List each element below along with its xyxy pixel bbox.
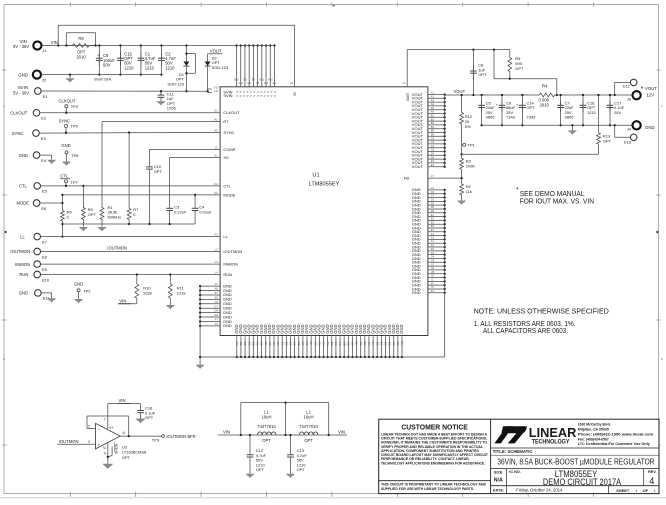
svg-text:4: 4 xyxy=(649,476,654,486)
svg-text:H7: H7 xyxy=(431,274,435,278)
svg-text:E3: E3 xyxy=(431,159,435,163)
svg-text:OF: OF xyxy=(643,488,649,493)
capacitor C3 0.22uF on SS xyxy=(170,156,221,158)
svg-text:OPT: OPT xyxy=(526,105,535,110)
svg-text:GND: GND xyxy=(399,324,404,333)
svg-text:1630 McCarthy Blvd.: 1630 McCarthy Blvd. xyxy=(578,423,611,427)
svg-text:B1: B1 xyxy=(431,114,435,118)
svg-text:0.22uF: 0.22uF xyxy=(174,210,187,215)
svg-text:a: a xyxy=(3,357,5,361)
wire IINMON line xyxy=(40,263,220,265)
svg-text:H2: H2 xyxy=(214,129,218,133)
svg-text:RUN: RUN xyxy=(19,272,28,277)
svg-text:2010: 2010 xyxy=(540,103,550,108)
svg-text:B10: B10 xyxy=(234,79,239,82)
svg-text:H8: H8 xyxy=(400,341,404,345)
capacitor C8 1uF OPT xyxy=(472,50,474,95)
svg-text:E6: E6 xyxy=(41,206,47,211)
svg-text:CLKOUT: CLKOUT xyxy=(223,110,240,115)
svg-text:8mm DIA.: 8mm DIA. xyxy=(94,77,112,82)
U1 right VOUT pins group xyxy=(428,94,445,96)
testpoint TP3 and IOUTMON BFR xyxy=(162,435,165,438)
svg-text:Phone: (408)432-1900 www.li: Phone: (408)432-1900 www.linear.com xyxy=(578,432,654,436)
ground symbol at E11 xyxy=(41,292,52,294)
svg-text:H5: H5 xyxy=(431,270,435,274)
svg-text:L2: L2 xyxy=(215,248,219,252)
svg-text:332k: 332k xyxy=(143,290,152,295)
svg-text:C1: C1 xyxy=(431,186,435,190)
svg-text:1: 1 xyxy=(654,488,656,493)
svg-text:LL: LL xyxy=(223,234,228,239)
svg-text:74477010: 74477010 xyxy=(299,424,318,429)
svg-text:VIN: VIN xyxy=(119,398,126,403)
wire VOUT rail xyxy=(445,94,537,96)
svg-text:F10: F10 xyxy=(214,85,219,89)
capacitor C10 OPT COMP xyxy=(150,148,221,150)
svg-text:L4: L4 xyxy=(215,271,219,275)
capacitor C18 0.1uF OPT xyxy=(140,404,142,409)
svg-text:6: 6 xyxy=(123,431,125,435)
svg-text:ALL CAPACITORS ARE 0603.: ALL CAPACITORS ARE 0603. xyxy=(483,328,568,335)
svg-text:5V - 36V: 5V - 36V xyxy=(13,44,29,49)
svg-text:E3: E3 xyxy=(41,136,47,141)
svg-text:OPT: OPT xyxy=(256,467,265,472)
svg-text:E5: E5 xyxy=(42,189,48,194)
svg-text:J2: J2 xyxy=(215,145,218,149)
resistor R1 36.5k to RT xyxy=(102,121,220,123)
svg-text:12V: 12V xyxy=(647,93,655,98)
svg-text:D7: D7 xyxy=(214,304,218,308)
svg-text:B9: B9 xyxy=(215,295,219,299)
svg-text:LL: LL xyxy=(20,234,25,239)
connector E6 MODE xyxy=(33,200,40,207)
wire right GND bus vertical xyxy=(444,190,446,357)
connector E13 xyxy=(614,125,616,137)
capacitor C6 68uF xyxy=(501,95,503,125)
svg-text:VOUT: VOUT xyxy=(645,86,657,91)
ground symbol U2 xyxy=(102,464,113,470)
svg-text:1206: 1206 xyxy=(167,106,177,111)
connector E12 xyxy=(614,82,616,95)
svg-text:VIN: VIN xyxy=(51,40,58,45)
connector E10 RUN xyxy=(34,271,41,278)
svg-text:FOR IOUT MAX. VS. VIN: FOR IOUT MAX. VS. VIN xyxy=(520,196,594,205)
svg-text:10uH: 10uH xyxy=(303,414,313,419)
svg-text:2: 2 xyxy=(88,424,90,428)
svg-text:GND: GND xyxy=(223,323,232,328)
svg-text:50V: 50V xyxy=(103,63,111,68)
U1 pin IN at top xyxy=(294,25,296,87)
svg-text:E7: E7 xyxy=(431,228,435,232)
svg-text:C8: C8 xyxy=(214,300,218,304)
connector J3 VOUT xyxy=(633,91,641,99)
svg-text:CTL: CTL xyxy=(19,184,28,189)
ground symbol output xyxy=(571,125,573,130)
svg-text:MODE: MODE xyxy=(16,201,29,206)
capacitor C5 22uF xyxy=(481,95,483,125)
svg-text:B2: B2 xyxy=(431,117,435,121)
svg-text:A4: A4 xyxy=(431,102,435,106)
svg-text:IOUTMON: IOUTMON xyxy=(223,249,242,254)
U1 pin IOUT at top xyxy=(406,50,408,87)
capacitor C4 0.01uF on MODE xyxy=(194,195,196,205)
svg-text:D5: D5 xyxy=(431,205,435,209)
svg-text:SIZE: SIZE xyxy=(494,470,503,474)
wire VIN filter line xyxy=(218,434,347,436)
svg-text:R8: R8 xyxy=(78,36,84,41)
svg-text:IOUTMON BFR: IOUTMON BFR xyxy=(166,434,195,439)
svg-text:A6: A6 xyxy=(431,110,435,114)
connector E9 IINMON xyxy=(34,261,41,268)
svg-text:G5: G5 xyxy=(431,258,435,262)
svg-text:SUPPLIED FOR USE WITH LINEAR T: SUPPLIED FOR USE WITH LINEAR TECHNOLOGY … xyxy=(381,487,474,491)
wire LL local bus xyxy=(62,223,195,225)
svg-text:10uH: 10uH xyxy=(261,414,271,419)
svg-text:H1: H1 xyxy=(214,118,218,122)
svg-text:B4: B4 xyxy=(431,125,435,129)
connector E4 GND xyxy=(33,152,40,159)
resistor R10 332k to VIN xyxy=(136,275,138,282)
resistor R9 OPT xyxy=(82,186,84,205)
svg-text:SHDN: SHDN xyxy=(115,443,119,454)
svg-text:OPT: OPT xyxy=(304,438,313,443)
svg-text:B11: B11 xyxy=(260,79,265,82)
svg-text:A8: A8 xyxy=(215,287,219,291)
wire VIN rail xyxy=(42,45,275,47)
svg-text:E2: E2 xyxy=(41,116,47,121)
svg-text:OPT: OPT xyxy=(154,169,163,174)
svg-text:D2: D2 xyxy=(431,201,435,205)
svg-text:DEMO CIRCUIT 2017A: DEMO CIRCUIT 2017A xyxy=(543,477,622,487)
svg-text:0805: 0805 xyxy=(565,115,575,120)
svg-text:5V - 36V: 5V - 36V xyxy=(13,90,29,95)
svg-text:IINMON: IINMON xyxy=(223,262,238,267)
svg-text:E9: E9 xyxy=(42,267,48,272)
svg-text:100K: 100K xyxy=(466,163,476,168)
resistor R13 OPT xyxy=(598,95,600,131)
resistor R2 11k xyxy=(460,178,464,200)
inductor L1 10uH xyxy=(258,432,276,435)
wire FB sense to R4 right xyxy=(556,79,558,95)
svg-text:CTL: CTL xyxy=(60,174,69,179)
svg-text:VIN: VIN xyxy=(119,298,126,303)
svg-text:1: 1 xyxy=(635,488,637,493)
U1 bottom GND pins row xyxy=(236,336,238,357)
svg-text:LTM8055EY: LTM8055EY xyxy=(309,182,340,188)
svg-text:OPT: OPT xyxy=(603,139,612,144)
connector E11 GND xyxy=(35,290,42,297)
svg-text:+: + xyxy=(97,442,100,447)
resistor R6 0 MODE to LL xyxy=(61,195,63,208)
svg-text:H1: H1 xyxy=(431,266,435,270)
svg-text:Fax: (408)434-0507: Fax: (408)434-0507 xyxy=(578,437,609,441)
svg-text:G7: G7 xyxy=(431,262,435,266)
wire LL line xyxy=(40,236,220,238)
svg-text:TECHNOLOGY APPLICATIONS ENGINE: TECHNOLOGY APPLICATIONS ENGINEERING FOR … xyxy=(381,461,485,465)
capacitor C17 0.1uF xyxy=(609,95,611,125)
wire CLKOUT line xyxy=(40,112,221,114)
svg-text:NOTE: UNLESS OTHERWISE SPECIFI: NOTE: UNLESS OTHERWISE SPECIFIED xyxy=(474,307,610,316)
wire U2 V- and SHDN to ground xyxy=(107,443,109,464)
connector E1 SVIN xyxy=(35,88,42,95)
svg-text:GND: GND xyxy=(61,143,70,148)
wire GND rail xyxy=(41,74,162,76)
capacitor C1 4.7uF xyxy=(140,46,142,75)
svg-text:E13: E13 xyxy=(624,140,631,145)
wire SVIN line xyxy=(41,90,208,92)
svg-text:A1: A1 xyxy=(431,91,435,95)
wire filter bypass top xyxy=(241,402,329,404)
svg-text:VIN: VIN xyxy=(338,429,345,434)
svg-text:SYNC: SYNC xyxy=(12,131,24,136)
svg-text:D9: D9 xyxy=(214,309,218,313)
svg-text:5%: 5% xyxy=(465,124,471,129)
U1 top SVIN bus pins xyxy=(236,46,238,87)
capacitor C11 1uF xyxy=(160,91,162,95)
svg-text:L3: L3 xyxy=(215,260,219,264)
svg-text:G1: G1 xyxy=(214,109,218,113)
wire RUN line xyxy=(40,274,220,276)
svg-text:A11: A11 xyxy=(272,82,277,85)
svg-text:OPT: OPT xyxy=(122,455,131,460)
svg-text:GND: GND xyxy=(645,125,655,130)
wire VIN top feed xyxy=(58,24,294,26)
svg-text:7: 7 xyxy=(104,417,106,421)
svg-text:36VIN, 8.5A BUCK-BOOST µMODUL: 36VIN, 8.5A BUCK-BOOST µMODULE REGULATOR xyxy=(497,457,654,466)
svg-text:11k: 11k xyxy=(466,189,472,194)
wire SVIN stubs to F10 F11 xyxy=(208,88,212,90)
svg-text:IOUTMON: IOUTMON xyxy=(107,245,127,250)
svg-text:RUN: RUN xyxy=(223,272,232,277)
svg-text:OPT: OPT xyxy=(297,467,306,472)
capacitor C15 xyxy=(119,46,121,75)
svg-text:E4: E4 xyxy=(431,163,435,167)
diode D1 with bypass loop xyxy=(185,46,187,92)
capacitor C9 100uF xyxy=(98,46,100,75)
connector E5 CTL xyxy=(34,183,41,190)
svg-text:E1: E1 xyxy=(431,213,435,217)
svg-text:SYNC: SYNC xyxy=(59,118,71,123)
svg-text:GND: GND xyxy=(412,290,421,295)
connector E8 IOUTMON xyxy=(34,248,41,255)
svg-text:V+: V+ xyxy=(109,426,115,430)
svg-text:OPT: OPT xyxy=(145,415,154,420)
svg-text:+: + xyxy=(97,53,99,57)
wire VOUT bus vertical to output rail xyxy=(444,95,446,167)
svg-text:GND: GND xyxy=(19,153,28,158)
wire R13 to divider node xyxy=(462,153,599,155)
svg-text:3: 3 xyxy=(88,440,90,444)
svg-text:K1: K1 xyxy=(214,153,218,157)
connector E2 CLKOUT xyxy=(33,110,40,117)
svg-text:25V: 25V xyxy=(614,110,621,115)
svg-text:0805: 0805 xyxy=(486,115,496,120)
svg-text:Friday, October 24, 2014: Friday, October 24, 2014 xyxy=(516,488,563,493)
svg-text:E10: E10 xyxy=(42,277,50,282)
svg-text:E4: E4 xyxy=(41,158,47,163)
title block xyxy=(379,419,659,493)
wire CTL line xyxy=(40,185,220,187)
svg-text:A10: A10 xyxy=(268,79,273,82)
op-amp U1 outline LTM8055EY xyxy=(220,87,428,336)
capacitor C7 22uF xyxy=(560,95,562,125)
svg-text:IOUT: IOUT xyxy=(406,93,410,101)
svg-text:GND: GND xyxy=(74,282,83,287)
capacitor C14 OPT xyxy=(521,95,523,125)
svg-text:121k: 121k xyxy=(177,290,186,295)
wire left GND bus vertical xyxy=(199,286,201,357)
svg-text:E6: E6 xyxy=(431,224,435,228)
svg-text:SOD-123: SOD-123 xyxy=(212,65,229,70)
svg-text:E8: E8 xyxy=(42,254,48,259)
svg-text:a: a xyxy=(661,357,663,361)
svg-text:B6: B6 xyxy=(431,133,435,137)
svg-text:SHEET: SHEET xyxy=(616,488,630,493)
svg-text:C3: C3 xyxy=(431,140,435,144)
svg-text:2010: 2010 xyxy=(76,55,86,60)
svg-text:C11: C11 xyxy=(264,82,269,85)
resistor R5 590 OPT with bypass loop xyxy=(493,50,495,79)
svg-text:F11: F11 xyxy=(214,89,219,93)
svg-text:E1: E1 xyxy=(43,94,49,99)
wire MODE line xyxy=(62,194,220,196)
svg-text:74477010: 74477010 xyxy=(257,424,276,429)
ground symbol on GND rail xyxy=(69,75,71,79)
svg-text:D1: D1 xyxy=(431,198,435,202)
svg-text:DATE:: DATE: xyxy=(493,489,504,493)
resistor R8 with bypass loop xyxy=(66,44,95,48)
svg-text:VOUT: VOUT xyxy=(412,164,424,169)
svg-text:F1: F1 xyxy=(215,233,219,237)
svg-text:D6: D6 xyxy=(431,209,435,213)
resistor R3 100K xyxy=(460,153,462,155)
svg-text:RT: RT xyxy=(223,119,229,124)
svg-text:7343: 7343 xyxy=(506,115,516,120)
svg-text:TP6: TP6 xyxy=(71,153,79,158)
resistor R11 121k to GND xyxy=(169,275,171,282)
svg-text:G4: G4 xyxy=(431,255,435,259)
svg-text:D3: D3 xyxy=(431,152,435,156)
svg-text:TP2: TP2 xyxy=(83,289,91,294)
svg-text:TP5: TP5 xyxy=(70,124,78,129)
svg-text:*: * xyxy=(641,86,644,93)
svg-text:IINMON: IINMON xyxy=(15,262,30,267)
resistor R4 0.008 sense xyxy=(537,93,557,97)
svg-text:IOUTMON: IOUTMON xyxy=(59,439,79,444)
inductor L2 10uH xyxy=(300,432,318,435)
svg-text:A7: A7 xyxy=(215,282,219,286)
capacitor C16 OPT xyxy=(582,95,584,125)
svg-text:Milpitas, CA 95035: Milpitas, CA 95035 xyxy=(578,428,609,432)
svg-text:U1: U1 xyxy=(312,173,319,179)
svg-text:A5: A5 xyxy=(431,106,435,110)
wire inverting input xyxy=(87,428,96,430)
svg-text:TITLE: SCHEMATIC: TITLE: SCHEMATIC xyxy=(493,449,533,454)
wire V+ supply xyxy=(107,404,109,430)
svg-text:TECHNOLOGY: TECHNOLOGY xyxy=(532,439,570,446)
capacitor C12 4.7uF xyxy=(249,435,251,453)
U1 pin FB xyxy=(428,177,462,179)
resistor R12 20 5% xyxy=(461,95,463,111)
svg-text:N/A: N/A xyxy=(494,478,503,484)
wire SYNC line xyxy=(39,132,220,135)
connector J1 VIN xyxy=(33,41,41,49)
svg-text:B3: B3 xyxy=(431,121,435,125)
svg-text:LTC Confidential-For Customer: LTC Confidential-For Customer Use Only xyxy=(578,442,651,446)
svg-text:E8: E8 xyxy=(215,313,219,317)
svg-text:1210: 1210 xyxy=(165,65,175,70)
svg-text:SVIN: SVIN xyxy=(223,93,232,98)
svg-text:SYNC: SYNC xyxy=(223,130,234,135)
svg-text:1210: 1210 xyxy=(587,110,597,115)
svg-text:K2: K2 xyxy=(214,182,218,186)
capacitor C13 4.7uF xyxy=(290,435,292,453)
svg-text:E2: E2 xyxy=(431,217,435,221)
svg-text:TP3: TP3 xyxy=(152,438,160,443)
svg-text:SS: SS xyxy=(223,155,229,160)
svg-text:GND: GND xyxy=(19,291,28,296)
svg-text:VOUT: VOUT xyxy=(210,49,222,54)
svg-text:E7: E7 xyxy=(42,239,48,244)
svg-text:1210: 1210 xyxy=(124,65,134,70)
svg-text:G2: G2 xyxy=(214,191,218,195)
svg-text:C2: C2 xyxy=(431,136,435,140)
svg-text:OPT: OPT xyxy=(88,212,97,217)
svg-text:OPT: OPT xyxy=(515,66,524,71)
svg-text:MODE: MODE xyxy=(223,192,235,197)
svg-text:E5: E5 xyxy=(431,220,435,224)
svg-text:600kHz: 600kHz xyxy=(108,215,122,220)
svg-text:IOUTMON: IOUTMON xyxy=(10,249,30,254)
svg-text:TP4: TP4 xyxy=(71,104,79,109)
linear technology logo xyxy=(494,426,526,443)
svg-text:−: − xyxy=(98,427,101,432)
ground symbol at E4 xyxy=(40,154,52,156)
svg-text:VOUT: VOUT xyxy=(454,89,466,94)
svg-text:VIN: VIN xyxy=(223,429,230,434)
wire feedback loop xyxy=(86,416,88,429)
svg-text:R4: R4 xyxy=(542,84,548,89)
resistor R7 0 on SYNC xyxy=(128,133,130,206)
svg-text:0.01uF: 0.01uF xyxy=(199,210,212,215)
ground symbol at bottom bus xyxy=(199,357,201,365)
wire IOUTMON line xyxy=(40,251,220,253)
svg-text:4: 4 xyxy=(104,452,106,456)
svg-text:B5: B5 xyxy=(431,129,435,133)
svg-text:OPT: OPT xyxy=(262,438,271,443)
wire output GND rail xyxy=(482,124,633,126)
wire IOUT top feed xyxy=(407,49,510,51)
svg-text:G1: G1 xyxy=(431,251,435,255)
svg-text:K4: K4 xyxy=(431,289,435,293)
svg-text:GND: GND xyxy=(18,72,28,77)
svg-text:*: * xyxy=(516,187,519,194)
svg-text:REV.: REV. xyxy=(648,470,657,474)
svg-text:D4: D4 xyxy=(431,155,435,159)
wire L1 L2 middle junction xyxy=(285,403,287,435)
svg-text:OPT: OPT xyxy=(478,72,487,77)
svg-text:A3: A3 xyxy=(431,98,435,102)
U1 left GND pins group xyxy=(200,285,220,287)
svg-text:C7: C7 xyxy=(431,194,435,198)
svg-text:THIS CIRCUIT IS PROPRIETARY TO: THIS CIRCUIT IS PROPRIETARY TO LINEAR TE… xyxy=(381,483,486,487)
svg-text:C5: C5 xyxy=(431,148,435,152)
svg-text:A2: A2 xyxy=(431,95,435,99)
svg-text:C6: C6 xyxy=(431,190,435,194)
wire bottom GND bus xyxy=(200,356,445,358)
svg-text:IC NO.: IC NO. xyxy=(509,470,521,474)
svg-text:IN: IN xyxy=(293,92,297,96)
